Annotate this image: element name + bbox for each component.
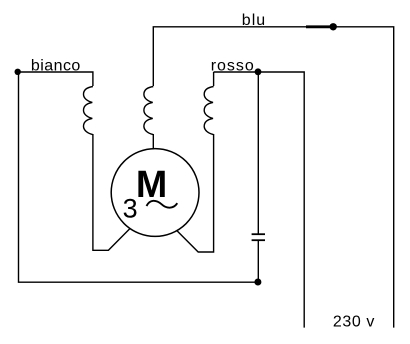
svg-text:3: 3	[123, 193, 138, 223]
svg-text:230 v: 230 v	[333, 313, 375, 330]
svg-text:M: M	[136, 164, 167, 206]
svg-text:rosso: rosso	[211, 57, 255, 74]
svg-text:bianco: bianco	[31, 58, 81, 75]
svg-text:blu: blu	[242, 12, 266, 29]
